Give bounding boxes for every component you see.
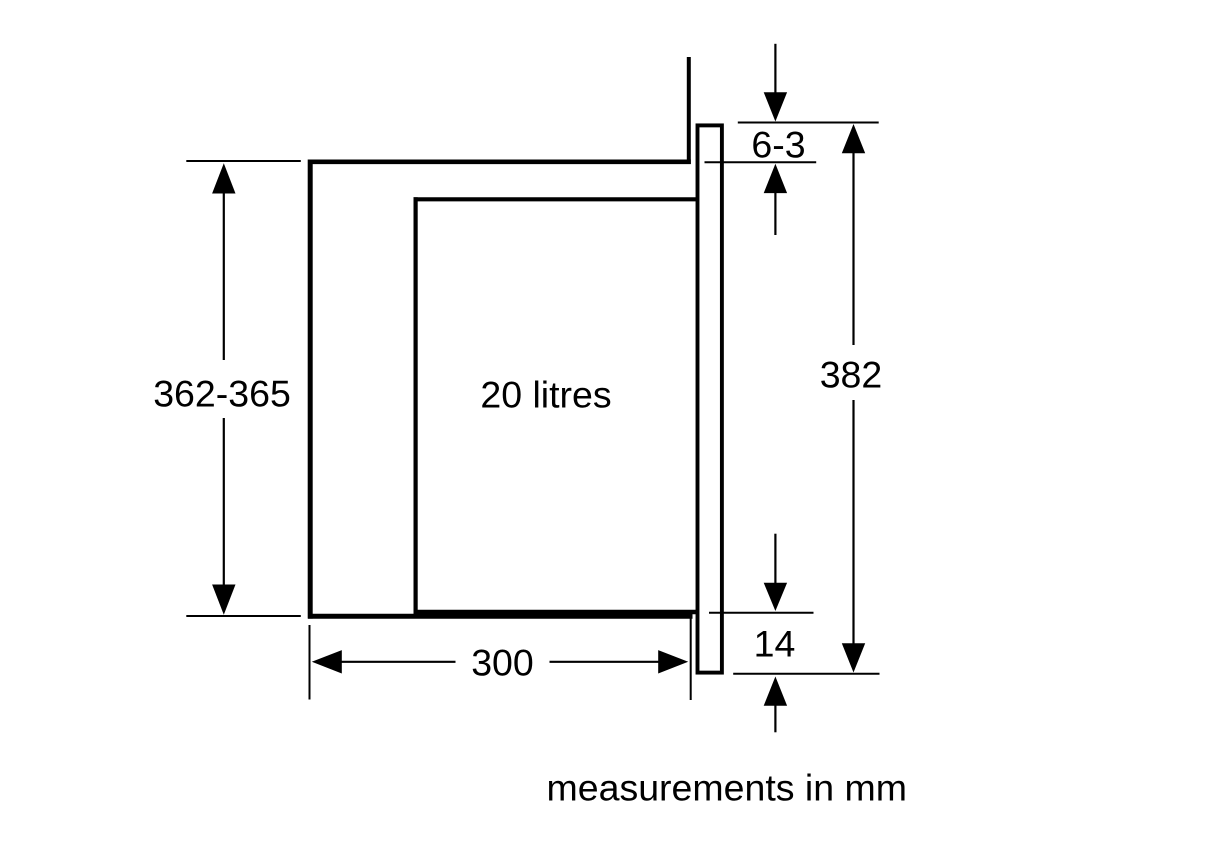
microwave body: bottom edge bbox=[414, 610, 697, 615]
svg-text:362-365: 362-365 bbox=[153, 373, 291, 415]
svg-text:measurements in mm: measurements in mm bbox=[547, 766, 908, 808]
dim 300: left extension line bbox=[309, 625, 311, 700]
dim 382: lower shaft bbox=[852, 400, 854, 644]
dim 362-365: down arrowhead bbox=[212, 585, 235, 615]
microwave body: top edge bbox=[414, 197, 700, 201]
dim 382: down arrowhead bbox=[842, 643, 865, 672]
svg-text:6-3: 6-3 bbox=[751, 124, 805, 166]
dim 362-365: top extension line bbox=[186, 160, 300, 162]
cabinet niche outline: top edge bbox=[308, 160, 691, 165]
dim 14: up arrowhead (from below) bbox=[764, 677, 787, 706]
svg-text:14: 14 bbox=[754, 623, 796, 665]
dim 14: lower shaft bbox=[774, 705, 776, 733]
svg-text:20 litres: 20 litres bbox=[480, 374, 611, 416]
cabinet niche outline: left edge bbox=[308, 160, 313, 619]
wall front edge vertical line (top) bbox=[687, 57, 691, 164]
dim 6-3: lower extension line bbox=[705, 161, 817, 163]
dim 14/382: lower extension line bbox=[733, 673, 879, 675]
dim 382: upper shaft bbox=[852, 152, 854, 345]
dim 6-3: down arrowhead bbox=[764, 92, 787, 121]
dim 300: left arrowhead bbox=[312, 650, 342, 673]
microwave body (20 litres): left edge bbox=[414, 197, 418, 613]
dim 300: right arrowhead bbox=[658, 650, 688, 673]
cabinet niche outline: bottom edge bbox=[308, 614, 693, 619]
dim 14: down arrowhead bbox=[764, 583, 787, 611]
dim 300: right shaft bbox=[550, 661, 660, 663]
dim 362-365: upper shaft bbox=[223, 193, 225, 361]
dim 300: left shaft bbox=[341, 661, 456, 663]
dim 14: upper extension line bbox=[709, 612, 814, 614]
dim 6-3: upper extension line bbox=[738, 122, 879, 124]
dim 6-3: upper shaft (from above) bbox=[774, 44, 776, 94]
dim 362-365: bottom extension line bbox=[186, 615, 300, 617]
door front panel bbox=[698, 125, 722, 672]
svg-text:382: 382 bbox=[820, 354, 883, 396]
dim 362-365: up arrowhead bbox=[212, 163, 235, 193]
dim 6-3: lower shaft bbox=[774, 192, 776, 235]
svg-text:300: 300 bbox=[471, 641, 534, 683]
dim 362-365: lower shaft bbox=[223, 418, 225, 585]
dim 300: right extension line bbox=[690, 616, 692, 700]
dim 382: up arrowhead bbox=[842, 124, 865, 153]
dim 14: upper shaft (from above) bbox=[774, 534, 776, 584]
dim 6-3: up arrowhead (from below) bbox=[764, 164, 787, 193]
